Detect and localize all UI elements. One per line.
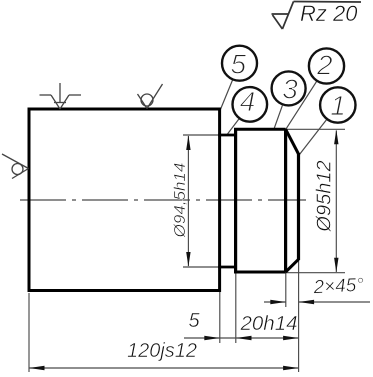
leader balloon 2 [286, 81, 317, 129]
dimension line 120js12 [29, 367, 299, 369]
dimension line dia 95h12 [335, 131, 337, 273]
part outline: groove bottom surface [218, 266, 237, 269]
balloon 3 [272, 71, 306, 105]
balloon 4 [233, 87, 268, 122]
svg-text:2×45°: 2×45° [312, 275, 365, 299]
svg-text:20h14: 20h14 [239, 312, 297, 335]
wire: extension line right of top edge (for dia 95) [287, 128, 345, 130]
surface finish symbol no-removal (top edge right) [138, 84, 163, 109]
svg-text:1: 1 [330, 90, 346, 121]
leader balloon 5 [220, 80, 233, 111]
part outline: end cylinder top edge [234, 128, 286, 131]
svg-text:Rz 20: Rz 20 [300, 1, 358, 26]
svg-text:2: 2 [316, 50, 333, 81]
wire: extension line below left corner (for 120js12) [28, 293, 30, 372]
centerline (axis) [20, 199, 306, 201]
wire: extension line below end face x=299 [298, 260, 300, 372]
surface finish symbol no-removal (left edge) [2, 154, 29, 179]
dimension line dia 94.5h14 [187, 136, 189, 266]
balloon 5 [222, 46, 257, 81]
wire: extension line below x=220 (for 5) [219, 291, 221, 343]
wire: extension line below x=233 (for 20h14) [235, 273, 237, 343]
part outline: end cylinder left face [234, 129, 237, 273]
dimension line 5 / 20h14 [184, 337, 299, 339]
svg-text:5: 5 [231, 49, 247, 80]
dimension line 2x45 chamfer [264, 301, 286, 303]
svg-text:3: 3 [282, 74, 298, 105]
svg-text:Ø95h12: Ø95h12 [314, 160, 336, 232]
svg-text:4: 4 [240, 86, 256, 117]
svg-text:5: 5 [188, 310, 200, 332]
wire: extension line left of groove top (for dia 94.5) [183, 134, 220, 136]
part outline: chamfer bottom diagonal [286, 259, 299, 272]
part outline: chamfer edge line [284, 129, 287, 272]
svg-text:Ø94,5h14: Ø94,5h14 [172, 163, 189, 239]
surface finish symbol machined (top edge left) [40, 83, 82, 109]
part outline: main cylinder body [29, 109, 220, 291]
leader balloon 1 [299, 120, 327, 156]
svg-text:120js12: 120js12 [127, 340, 197, 362]
roughness symbol Rz 20 (top right) [272, 2, 362, 30]
balloon 2 [309, 48, 344, 83]
balloon 1 [320, 87, 355, 122]
part outline: end face [297, 153, 300, 260]
part outline: groove top surface [218, 134, 237, 137]
wire: extension line right of bottom edge (for dia 95) [283, 272, 345, 274]
part outline: chamfer top diagonal [286, 129, 299, 154]
leader balloon 4 [228, 119, 239, 134]
wire: extension line left of groove bottom (for dia 94.5) [183, 266, 220, 268]
wire: extension line below chamfer edge x=286 [285, 272, 287, 307]
leader balloon 3 [274, 105, 283, 129]
part outline: end cylinder bottom edge [234, 271, 286, 274]
